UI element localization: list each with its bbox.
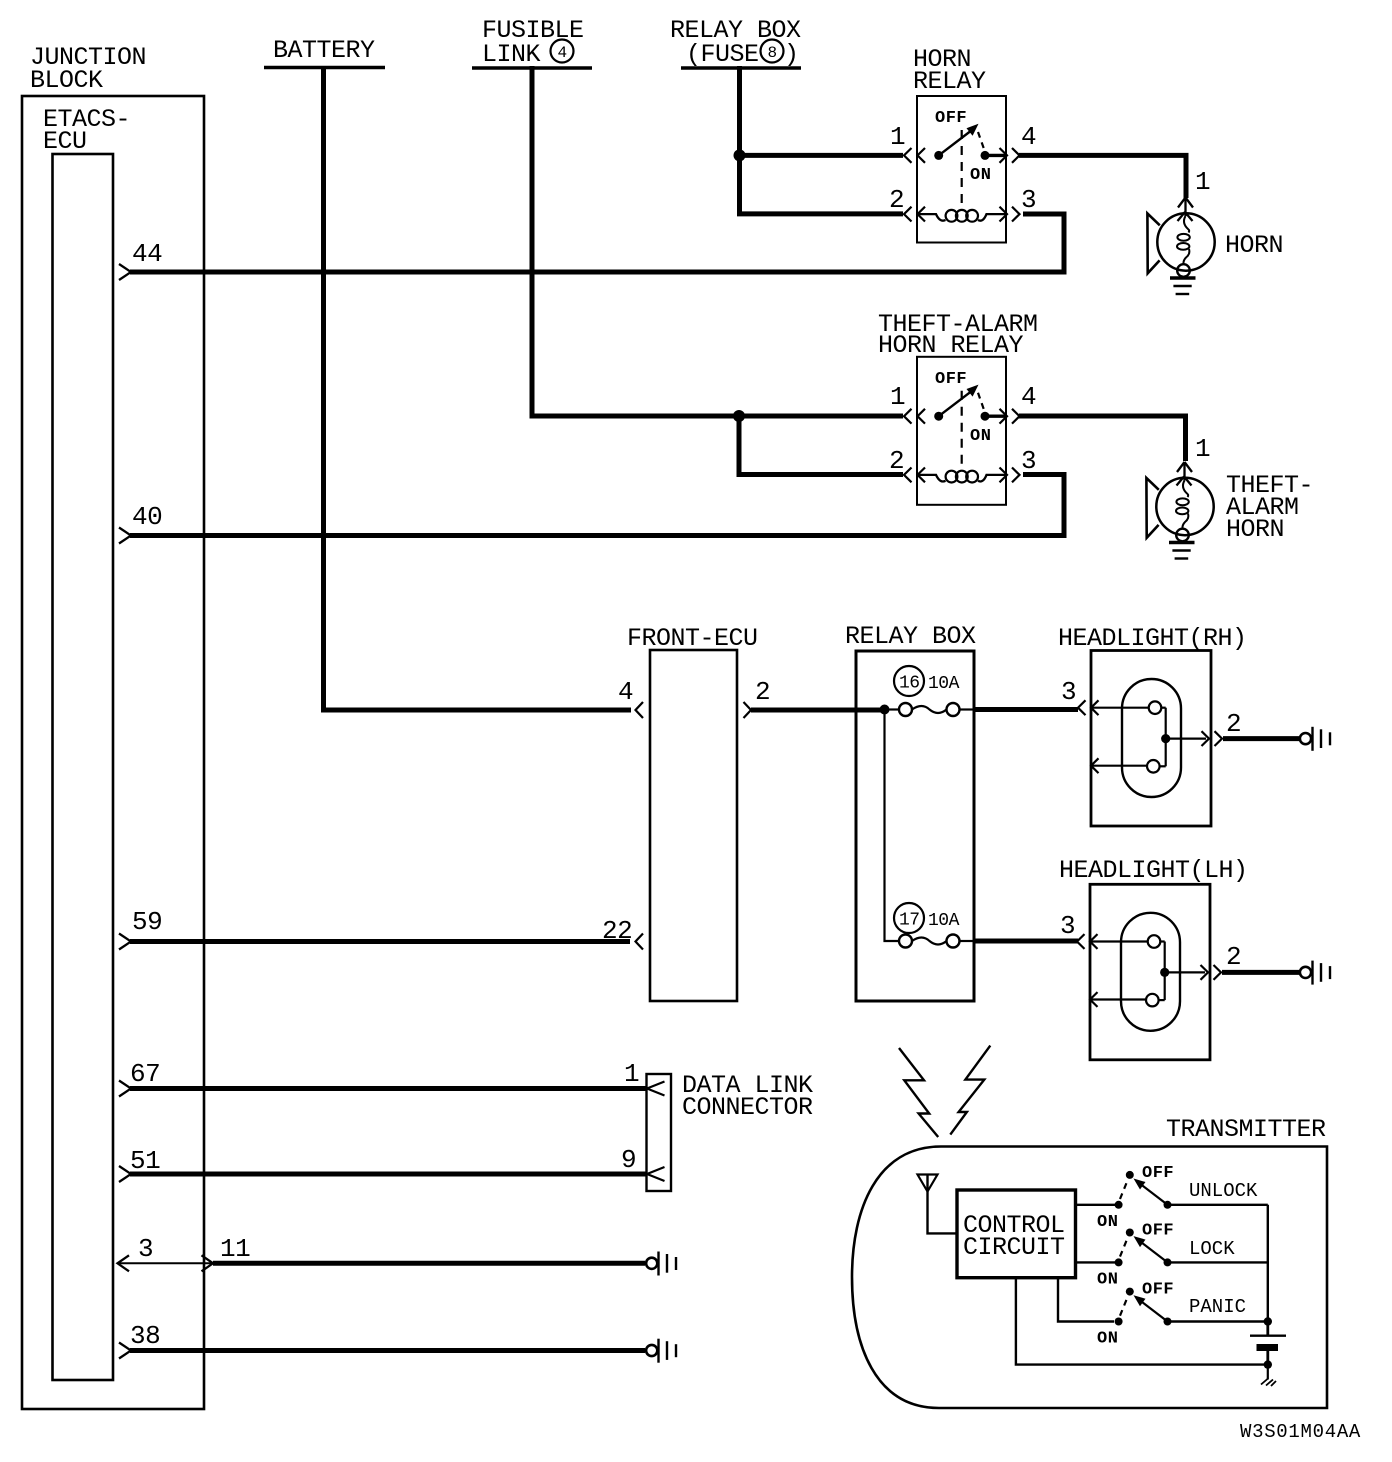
front-ecu pin 22 bbox=[602, 916, 643, 950]
relay box outline bbox=[856, 651, 974, 1001]
svg-text:BATTERY: BATTERY bbox=[273, 36, 375, 65]
svg-text:LOCK: LOCK bbox=[1189, 1238, 1235, 1260]
label THEFT-ALARM HORN RELAY bbox=[878, 310, 1038, 360]
svg-text:CONNECTOR: CONNECTOR bbox=[682, 1093, 813, 1122]
svg-text:4: 4 bbox=[1021, 382, 1036, 412]
pin 44 bbox=[119, 239, 162, 280]
horn symbol bbox=[1147, 198, 1214, 295]
wire pin59 to front-ecu pin22 bbox=[130, 939, 630, 944]
svg-text:10A: 10A bbox=[928, 674, 960, 694]
battery bus bbox=[264, 36, 385, 68]
transmitter ground bbox=[1261, 1365, 1276, 1386]
svg-text:CIRCUIT: CIRCUIT bbox=[963, 1233, 1065, 1262]
headlight LH bulb bbox=[1077, 884, 1221, 1060]
horn pin 1 bbox=[1195, 167, 1210, 197]
horn relay pin 4 bbox=[1021, 122, 1036, 152]
label ETACS-ECU bbox=[43, 105, 130, 156]
drawing number W3S01M04AA bbox=[1240, 1421, 1361, 1443]
svg-text:HORN: HORN bbox=[1225, 231, 1283, 260]
svg-text:8: 8 bbox=[768, 44, 777, 62]
svg-text:2: 2 bbox=[889, 185, 904, 215]
headlight RH pin 3 bbox=[1061, 677, 1076, 707]
wire pin40 to theft relay pin3 bbox=[130, 475, 1064, 536]
label TRANSMITTER bbox=[1166, 1115, 1326, 1144]
label FRONT-ECU bbox=[627, 624, 758, 653]
svg-text:11: 11 bbox=[220, 1234, 250, 1264]
svg-text:1: 1 bbox=[890, 122, 905, 152]
label THEFT-ALARM HORN bbox=[1226, 471, 1313, 544]
horn relay pin 2 bbox=[889, 185, 904, 215]
headlight LH pin 3 bbox=[1060, 911, 1075, 941]
wire branch horn relay pin1 bbox=[740, 153, 904, 158]
data link connector pin 1 bbox=[624, 1059, 639, 1089]
svg-text:ON: ON bbox=[1097, 1213, 1118, 1232]
pin 3 bbox=[138, 1234, 153, 1264]
svg-text:OFF: OFF bbox=[1142, 1281, 1174, 1300]
svg-text:TRANSMITTER: TRANSMITTER bbox=[1166, 1115, 1326, 1144]
double arrow pin3 to pin11 bbox=[118, 1255, 214, 1271]
pin 11 bbox=[220, 1234, 250, 1264]
label HORN RELAY bbox=[913, 45, 986, 96]
svg-text:FRONT-ECU: FRONT-ECU bbox=[627, 624, 758, 653]
svg-text:OFF: OFF bbox=[935, 109, 967, 128]
svg-text:2: 2 bbox=[889, 446, 904, 476]
svg-text:1: 1 bbox=[624, 1059, 639, 1089]
theft-alarm horn symbol bbox=[1146, 462, 1213, 559]
svg-text:(FUSE: (FUSE bbox=[686, 40, 759, 69]
svg-text:3: 3 bbox=[1021, 185, 1036, 215]
label RELAY BOX bbox=[845, 622, 976, 651]
pin 51 bbox=[119, 1146, 160, 1182]
label LOCK bbox=[1189, 1238, 1235, 1260]
fuse 16 element bbox=[885, 703, 975, 716]
svg-text:HORN: HORN bbox=[1226, 515, 1284, 544]
junction node on horn pin1 wire bbox=[734, 149, 746, 161]
wire relay box fuse8 to horn relay pin1 bbox=[740, 66, 904, 214]
svg-text:3: 3 bbox=[138, 1234, 153, 1264]
svg-text:40: 40 bbox=[132, 502, 162, 532]
wire headlight RH to ground bbox=[1223, 736, 1299, 741]
svg-text:OFF: OFF bbox=[1142, 1222, 1174, 1241]
theft relay pin 4 bbox=[1021, 382, 1036, 412]
fuse 17 designator bbox=[894, 903, 924, 933]
svg-text:4: 4 bbox=[1021, 122, 1036, 152]
wire theft relay pin4 to theft-alarm horn bbox=[1019, 416, 1186, 461]
fuse 17 rating 10A bbox=[928, 911, 960, 931]
svg-text:44: 44 bbox=[132, 239, 162, 269]
svg-text:W3S01M04AA: W3S01M04AA bbox=[1240, 1421, 1361, 1443]
wire front-ecu pin2 to relay box bbox=[751, 708, 884, 713]
horn relay pin 1 bbox=[890, 122, 905, 152]
svg-text:ON: ON bbox=[1097, 1271, 1118, 1290]
wire pin67 to data link connector pin1 bbox=[130, 1086, 646, 1091]
panic switch bbox=[1097, 1281, 1268, 1349]
theft relay pin 2 bbox=[889, 446, 904, 476]
wire pin11 to ground bbox=[213, 1261, 645, 1266]
svg-text:OFF: OFF bbox=[935, 370, 967, 389]
svg-text:16: 16 bbox=[899, 674, 920, 694]
wire pin38 to ground bbox=[130, 1348, 645, 1353]
wire pin44 to horn relay pin3 bbox=[130, 214, 1064, 272]
fuse 16 rating 10A bbox=[928, 674, 960, 694]
svg-text:10A: 10A bbox=[928, 911, 960, 931]
wire fusible link to theft relay pin1 bbox=[532, 66, 903, 416]
label HEADLIGHT (LH) bbox=[1059, 856, 1248, 885]
theft relay pin 1 bbox=[890, 382, 905, 412]
transmitter outline bbox=[852, 1147, 1327, 1409]
headlight RH bulb bbox=[1078, 651, 1222, 827]
svg-text:ECU: ECU bbox=[43, 127, 87, 156]
svg-text:3: 3 bbox=[1061, 677, 1076, 707]
svg-text:HEADLIGHT(LH): HEADLIGHT(LH) bbox=[1059, 856, 1248, 885]
label HEADLIGHT (RH) bbox=[1058, 624, 1247, 653]
svg-text:4: 4 bbox=[618, 677, 633, 707]
radio signal lightning left bbox=[899, 1048, 938, 1137]
pin 59 bbox=[119, 907, 162, 950]
svg-text:59: 59 bbox=[132, 907, 162, 937]
label CONTROL CIRCUIT bbox=[963, 1211, 1065, 1262]
front-ecu box bbox=[650, 650, 737, 1001]
svg-text:4: 4 bbox=[558, 44, 567, 62]
pin 38 bbox=[119, 1321, 160, 1359]
label DATA LINK CONNECTOR bbox=[682, 1071, 813, 1122]
label JUNCTION BLOCK bbox=[30, 43, 146, 95]
data link connector body bbox=[647, 1074, 672, 1191]
radio signal lightning right bbox=[950, 1046, 990, 1135]
svg-text:OFF: OFF bbox=[1142, 1164, 1174, 1183]
theft-alarm horn pin 1 bbox=[1195, 434, 1210, 464]
label PANIC bbox=[1189, 1296, 1246, 1318]
junction node in relay box bbox=[880, 705, 890, 715]
body ground for pin38 wire bbox=[646, 1339, 676, 1363]
front-ecu pin 4 bbox=[618, 677, 643, 718]
wire pin51 to data link connector pin9 bbox=[130, 1172, 646, 1177]
svg-text:1: 1 bbox=[890, 382, 905, 412]
body ground headlight RH bbox=[1300, 727, 1330, 751]
wire switch bus bbox=[1267, 1205, 1269, 1322]
front-ecu pin 2 bbox=[744, 677, 771, 718]
data link connector pin 9 bbox=[621, 1145, 636, 1175]
svg-text:RELAY BOX: RELAY BOX bbox=[845, 622, 976, 651]
relay box fuse 8 bus bbox=[670, 16, 801, 69]
svg-text:2: 2 bbox=[1226, 709, 1241, 739]
pin 40 bbox=[119, 502, 162, 544]
horn relay pin 3 bbox=[1021, 185, 1036, 215]
svg-text:PANIC: PANIC bbox=[1189, 1296, 1246, 1318]
svg-text:LINK: LINK bbox=[482, 40, 541, 69]
svg-text:ON: ON bbox=[970, 166, 991, 185]
wire fuse16 to headlight RH bbox=[974, 707, 1078, 712]
body ground headlight LH bbox=[1300, 961, 1330, 985]
svg-text:UNLOCK: UNLOCK bbox=[1189, 1180, 1258, 1202]
label UNLOCK bbox=[1189, 1180, 1258, 1202]
wire control circuit to panic switch bbox=[1058, 1278, 1114, 1322]
svg-text:3: 3 bbox=[1021, 446, 1036, 476]
junction node on theft pin1 wire bbox=[733, 410, 745, 422]
svg-text:2: 2 bbox=[755, 677, 770, 707]
battery B1 bbox=[1250, 1322, 1286, 1365]
wire branch to theft relay pin2 bbox=[739, 416, 903, 475]
svg-text:HORN RELAY: HORN RELAY bbox=[878, 331, 1024, 360]
svg-text:BLOCK: BLOCK bbox=[30, 66, 103, 95]
svg-text:HEADLIGHT(RH): HEADLIGHT(RH) bbox=[1058, 624, 1247, 653]
svg-text:2: 2 bbox=[1226, 942, 1241, 972]
wire horn relay pin4 to horn bbox=[1019, 155, 1186, 198]
pin 67 bbox=[119, 1059, 160, 1097]
horn relay body bbox=[904, 96, 1020, 243]
svg-text:9: 9 bbox=[621, 1145, 636, 1175]
svg-text:22: 22 bbox=[602, 916, 632, 946]
headlight RH pin 2 bbox=[1226, 709, 1241, 739]
wire headlight LH to ground bbox=[1222, 970, 1299, 975]
svg-text:3: 3 bbox=[1060, 911, 1075, 941]
transmitter antenna bbox=[918, 1175, 958, 1234]
unlock switch bbox=[1076, 1164, 1268, 1232]
body ground for pin11 wire bbox=[646, 1252, 676, 1276]
wire fuse17 to headlight LH bbox=[974, 939, 1078, 944]
theft relay pin 3 bbox=[1021, 446, 1036, 476]
svg-text:1: 1 bbox=[1195, 167, 1210, 197]
svg-text:17: 17 bbox=[899, 911, 920, 931]
svg-text:1: 1 bbox=[1195, 434, 1210, 464]
wire battery to front-ecu pin4 bbox=[324, 66, 632, 710]
headlight LH pin 2 bbox=[1226, 942, 1241, 972]
junction node battery bottom bbox=[1264, 1360, 1272, 1368]
svg-text:ON: ON bbox=[970, 427, 991, 446]
lock switch bbox=[1076, 1222, 1268, 1290]
junction node battery top bbox=[1264, 1317, 1272, 1325]
control circuit box bbox=[957, 1190, 1076, 1278]
label HORN bbox=[1225, 231, 1283, 260]
svg-text:): ) bbox=[784, 40, 799, 69]
svg-text:67: 67 bbox=[130, 1059, 160, 1089]
svg-text:38: 38 bbox=[130, 1321, 160, 1351]
wire branch down to fuse 17 bbox=[885, 710, 900, 942]
fuse 17 element bbox=[899, 935, 974, 948]
junction block outline bbox=[22, 96, 204, 1409]
theft-alarm horn relay body bbox=[904, 357, 1020, 505]
ETACS-ECU box bbox=[53, 154, 114, 1380]
fuse 16 designator bbox=[894, 666, 924, 696]
fusible link 4 bus bbox=[472, 16, 592, 69]
wire control circuit return bbox=[1016, 1278, 1268, 1365]
svg-text:RELAY: RELAY bbox=[913, 67, 986, 96]
svg-text:ON: ON bbox=[1097, 1330, 1118, 1349]
